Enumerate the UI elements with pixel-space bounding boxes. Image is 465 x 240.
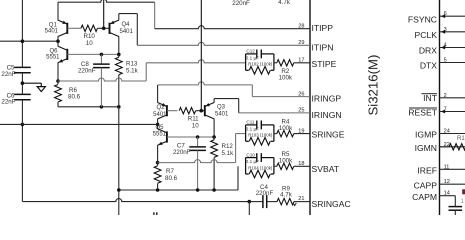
resistor R10: [67, 25, 109, 47]
svg-text:4.7k: 4.7k: [278, 0, 291, 6]
resistor R12: [211, 137, 234, 190]
wire IRINGP to pin 26: [252, 96, 310, 98]
pin 2 INT: [422, 93, 465, 103]
junction: [200, 109, 204, 113]
wire Q5 collector: [157, 124, 159, 129]
capacitor C4: [249, 184, 273, 208]
svg-text:Q5: Q5: [155, 125, 164, 131]
svg-text:SRINGAC: SRINGAC: [312, 199, 351, 209]
wire left vertical: [21, 0, 23, 67]
wire SRINGAC: [22, 199, 249, 202]
svg-text:SVBAT: SVBAT: [312, 164, 340, 174]
resistor R8 value label (cut): [278, 0, 291, 6]
pin 18 SVBAT label: [298, 161, 340, 174]
svg-text:IRINGN: IRINGN: [312, 110, 342, 120]
resistor R13: [115, 54, 138, 106]
wire emitter rail Q1-Q4 (ITIPP rail): [58, 0, 155, 2]
svg-text:Q4: Q4: [122, 22, 131, 28]
junction: [156, 188, 160, 192]
IC U1 part name Si3216(M): [366, 55, 381, 116]
pin 28 ITIPP label: [298, 23, 333, 33]
pin 29 ITIPN label: [298, 40, 333, 52]
junction: [248, 200, 252, 204]
wire Q3 emitter to IRINGN: [214, 99, 239, 113]
resistor R5: [274, 151, 310, 169]
svg-text:IRINGP: IRINGP: [312, 93, 342, 103]
svg-text:10: 10: [192, 122, 199, 129]
junction: [21, 81, 25, 85]
junction: [117, 53, 121, 57]
svg-text:R13: R13: [126, 60, 138, 67]
capacitor C16 label fragment (red): [461, 189, 465, 205]
svg-text:0.1 µF: 0.1 µF: [246, 56, 259, 61]
svg-text:CAPP: CAPP: [414, 180, 438, 190]
svg-text:220nF: 220nF: [78, 67, 96, 74]
pin 7 RESET: [408, 107, 465, 118]
ground: [37, 87, 45, 92]
transistor Q4: [110, 20, 134, 36]
svg-text:IREF: IREF: [417, 166, 437, 176]
svg-text:5.1k: 5.1k: [126, 67, 139, 74]
svg-text:0.1 µF: 0.1 µF: [246, 127, 259, 132]
svg-text:DRX: DRX: [419, 46, 437, 56]
svg-text:R12: R12: [222, 143, 234, 150]
wire base feed 2 (cut off top): [200, 0, 202, 111]
wire Q3 collector: [213, 119, 215, 137]
wire IRINGN to pin 25: [239, 112, 310, 114]
svg-text:Si3216(M): Si3216(M): [366, 55, 381, 116]
pin 6 FSYNC: [408, 11, 465, 24]
wire Q2 emitter: [157, 85, 159, 103]
wire Q2 collector: [157, 119, 159, 125]
wire node line to left edge: [0, 123, 158, 125]
svg-text:5401: 5401: [45, 29, 59, 35]
junction: [21, 123, 25, 127]
svg-text:22nF: 22nF: [1, 71, 15, 78]
svg-text:SRINGE: SRINGE: [312, 130, 345, 140]
IC U1 Si3216(M) left edge: [309, 0, 311, 215]
pin 24 IGMP: [415, 129, 465, 140]
wire Q6 base: [67, 53, 119, 55]
wire: [21, 73, 23, 94]
wire Q6 collector: [57, 41, 59, 46]
wire emitter rail Q2 (IRINGP): [158, 82, 252, 97]
pin 26 IRINGP label: [298, 91, 341, 103]
pin 21 SRINGAC label: [298, 196, 350, 209]
resistor R7: [154, 163, 177, 190]
wire Q5 base: [167, 136, 214, 138]
svg-text:C11: C11: [246, 120, 255, 125]
pin 14 CAPM: [412, 191, 462, 215]
transistor Q5: [153, 125, 167, 145]
junction: [196, 135, 200, 139]
capacitor C10 / resistor R104 parallel RC: [246, 152, 274, 177]
capacitor C5: [1, 65, 30, 78]
svg-text:0.1 µF: 0.1 µF: [246, 159, 259, 164]
svg-text:Q6: Q6: [49, 48, 58, 54]
pin 11 IREF: [417, 164, 465, 175]
resistor R1 (cut off): [440, 136, 465, 150]
wire Q1 emitter: [57, 2, 59, 20]
svg-text:R1: R1: [457, 136, 465, 142]
wire bottom rail: [119, 166, 238, 190]
junction node STIPE pickup: [56, 79, 60, 83]
pin 17 STIPE label: [298, 58, 336, 69]
svg-text:5401: 5401: [153, 112, 167, 118]
svg-text:100k: 100k: [279, 75, 293, 82]
text fragment cut at bottom edge: [154, 212, 157, 215]
svg-text:80.6: 80.6: [68, 94, 81, 101]
svg-text:80.6: 80.6: [165, 175, 178, 182]
pin 19 SRINGE label: [298, 128, 344, 139]
junction node Q2C-Q5C: [156, 123, 160, 127]
svg-text:Q3: Q3: [217, 105, 226, 111]
wire SRINGE pickup: [158, 134, 246, 163]
resistor R6: [55, 81, 81, 107]
pin 5 DTX: [420, 58, 465, 71]
capacitor C7: [173, 137, 206, 190]
pin 12 CAPP: [414, 179, 465, 190]
svg-text:STIPE: STIPE: [312, 59, 337, 69]
pin 25 IRINGN label: [298, 108, 341, 121]
svg-text:FSYNC: FSYNC: [408, 15, 437, 25]
wire STIPE pickup: [58, 63, 146, 81]
svg-text:RESET: RESET: [408, 107, 437, 117]
wire base feed (cut off top): [103, 0, 105, 28]
node TIP line: [0, 40, 58, 42]
resistor R11: [167, 108, 205, 130]
svg-text:ITIPP: ITIPP: [312, 23, 334, 33]
svg-text:R7: R7: [166, 168, 174, 175]
svg-text:IGMP: IGMP: [415, 130, 437, 140]
junction node Q1C-Q6C: [56, 39, 60, 43]
svg-text:C12: C12: [246, 49, 255, 54]
transistor Q2: [153, 103, 167, 119]
svg-text:100k: 100k: [279, 158, 293, 165]
svg-text:CAPM: CAPM: [412, 192, 437, 202]
wire stub down: [248, 202, 250, 215]
transistor Q6: [46, 46, 67, 62]
junction: [102, 27, 106, 31]
svg-text:Q2: Q2: [156, 105, 165, 111]
junction: [117, 188, 121, 192]
svg-text:5401: 5401: [120, 29, 134, 35]
svg-text:R102 (100k): R102 (100k): [248, 62, 273, 67]
wire Q6 emitter: [57, 62, 59, 81]
capacitor C12 / resistor R102 parallel RC: [246, 49, 274, 74]
wire long vertical to bottom rail: [118, 107, 120, 215]
resistor R4: [274, 119, 310, 137]
svg-text:ITIPN: ITIPN: [312, 42, 334, 52]
svg-text:220nF: 220nF: [173, 149, 191, 156]
svg-text:C10: C10: [246, 152, 255, 157]
wire STIPE to RC network: [146, 60, 245, 63]
wire Q4 collector: [118, 36, 120, 54]
resistor R2: [274, 60, 310, 82]
svg-text:10: 10: [86, 40, 93, 47]
svg-text:DTX: DTX: [420, 61, 437, 71]
wire Q5 emitter: [157, 145, 159, 163]
wire ITIPP jog: [154, 2, 156, 29]
junction: [196, 188, 200, 192]
resistor R9: [267, 185, 310, 205]
pin 4 DRX: [419, 43, 465, 56]
svg-text:Q1: Q1: [49, 22, 58, 28]
wire Q1 collector: [57, 36, 59, 41]
svg-text:INT: INT: [423, 93, 438, 103]
text fragment V near pin 21: [293, 203, 296, 206]
svg-text:R103 (100k): R103 (100k): [248, 133, 273, 138]
svg-text:4.7k: 4.7k: [280, 192, 293, 199]
svg-text:IGMN: IGMN: [415, 143, 437, 153]
wire ITIPP to pin 28: [155, 26, 310, 29]
junction: [21, 39, 25, 43]
junction node SRINGE pickup: [156, 161, 160, 165]
svg-text:22nF: 22nF: [1, 99, 15, 106]
capacitor C8: [78, 54, 110, 106]
svg-text:5551: 5551: [153, 132, 167, 138]
junction: [117, 105, 121, 109]
junction: [100, 53, 104, 57]
wire ground stub: [22, 83, 41, 86]
svg-text:5.1k: 5.1k: [222, 150, 235, 157]
pin 22 IGMN: [415, 142, 465, 153]
transistor Q3: [205, 103, 229, 119]
pin 3 PCLK: [415, 27, 465, 40]
svg-text:220nF: 220nF: [256, 190, 274, 197]
capacitor C11 / resistor R103 parallel RC: [246, 120, 274, 145]
wire ITIPN to pin 29: [137, 42, 310, 45]
junction: [212, 188, 216, 192]
junction: [212, 135, 216, 139]
capacitor C6: [1, 92, 30, 105]
svg-text:220nF: 220nF: [232, 0, 250, 7]
capacitor C3 value label (cut): [232, 0, 250, 7]
junction: [100, 105, 104, 109]
svg-text:PCLK: PCLK: [415, 30, 438, 40]
svg-text:5401: 5401: [215, 112, 229, 118]
svg-text:R104 (100k): R104 (100k): [248, 165, 273, 170]
svg-text:100k: 100k: [279, 125, 293, 132]
svg-text:5551: 5551: [46, 55, 60, 61]
wire bottom of R6 to R13 column: [58, 106, 119, 108]
wire: [21, 100, 23, 202]
IC U1 right edge: [439, 0, 441, 215]
transistor Q1: [45, 20, 68, 36]
wire Q4 emitter to ITIPN: [119, 14, 138, 46]
